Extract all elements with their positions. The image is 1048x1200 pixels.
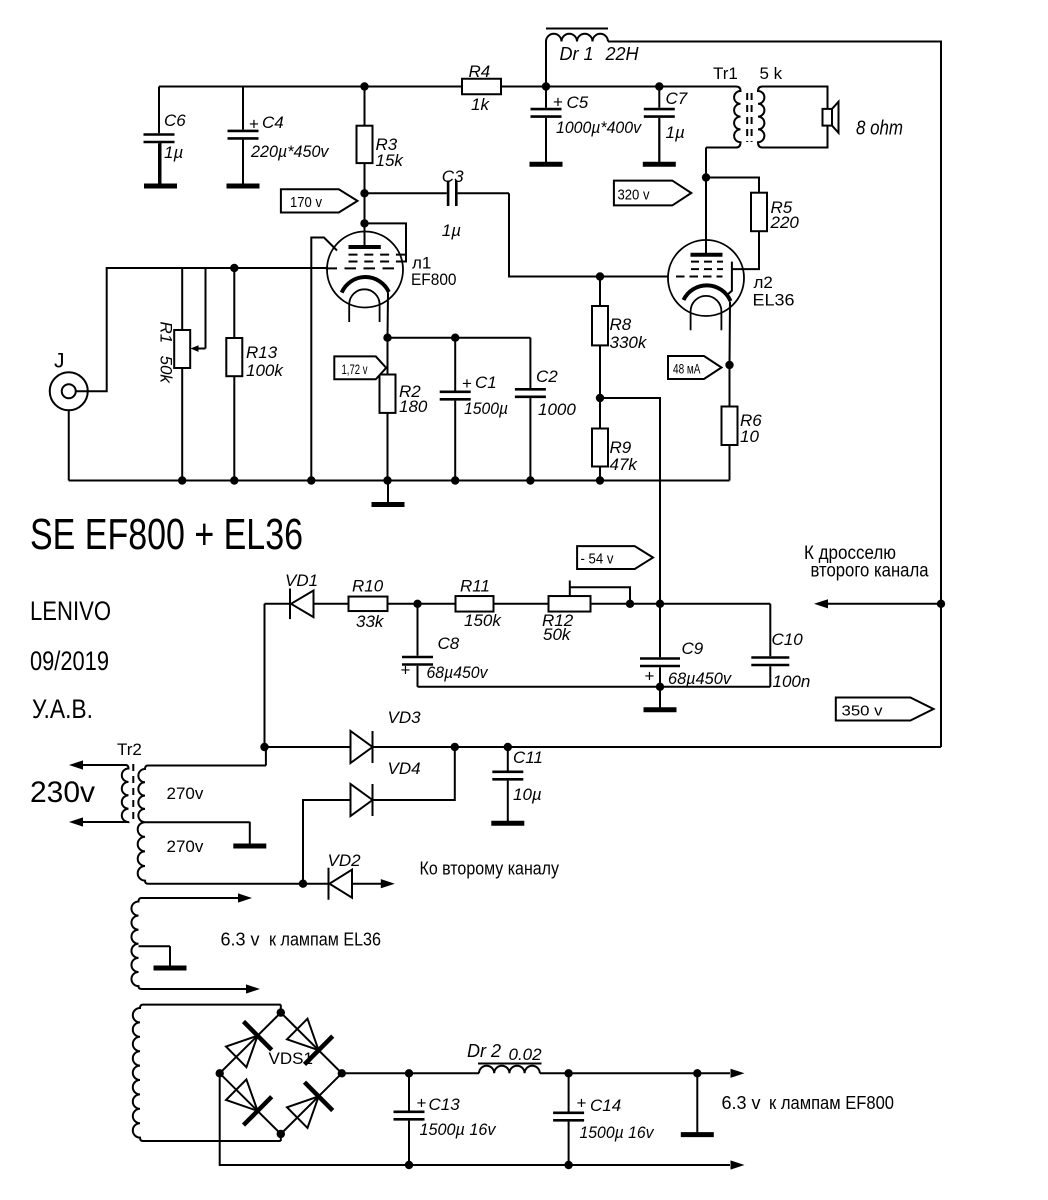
- tube L1 screen bracket: [365, 223, 407, 261]
- tube L2 EL36 envelope: [668, 240, 744, 316]
- choke Dr1: [546, 29, 608, 87]
- arrow heater EL36 b: [246, 984, 260, 993]
- resistor R8: [592, 306, 608, 345]
- svg-text:220: 220: [770, 213, 800, 232]
- wire (HV centre tap): [145, 821, 250, 823]
- node anode EL36 / R5: [702, 173, 710, 181]
- potentiometer R12 wiper: [570, 581, 630, 604]
- wire: [599, 277, 601, 307]
- wire: [364, 163, 366, 245]
- node HV bottom: [299, 880, 307, 888]
- svg-text:100n: 100n: [773, 672, 811, 691]
- svg-text:SE EF800 + EL36: SE EF800 + EL36: [30, 510, 303, 559]
- tube L1 heater: [349, 289, 379, 322]
- node VD4 join: [451, 743, 459, 751]
- wire: [387, 338, 389, 375]
- resistor R11: [456, 596, 494, 612]
- node screen tap L1: [360, 219, 368, 227]
- node C9 ground: [656, 683, 664, 691]
- wire (DC plus rail): [342, 1072, 479, 1074]
- transformer Tr1 primary: [706, 87, 741, 148]
- svg-text:50k: 50k: [157, 356, 176, 385]
- svg-text:220µ*450v: 220µ*450v: [250, 142, 330, 161]
- svg-text:0.02: 0.02: [509, 1045, 543, 1064]
- speaker 8 ohm: [823, 102, 839, 133]
- svg-text:100k: 100k: [246, 361, 284, 380]
- junction: [451, 334, 459, 342]
- svg-text:Tr1: Tr1: [713, 64, 738, 83]
- capacitor C14: [553, 1073, 584, 1165]
- flag 48 mA: [668, 356, 722, 379]
- transformer Tr2 heater winding 6.3v EL36: [131, 898, 246, 989]
- svg-text:R10: R10: [352, 577, 384, 596]
- svg-text:10: 10: [740, 427, 759, 446]
- wire (HV top to rectifier): [265, 747, 267, 766]
- svg-text:180: 180: [399, 397, 428, 416]
- node C13 plus: [405, 1069, 413, 1077]
- svg-text:VD3: VD3: [388, 708, 422, 727]
- svg-text:68µ450v: 68µ450v: [668, 669, 732, 688]
- arrow to second channel: [381, 879, 395, 888]
- svg-text:л2: л2: [754, 273, 773, 292]
- wire: [303, 883, 329, 885]
- node cathode L2: [725, 361, 733, 369]
- wire: [732, 231, 759, 269]
- node -54v: [656, 600, 664, 608]
- transformer Tr1 core: [747, 93, 751, 142]
- ground (C7): [643, 118, 676, 164]
- wire: [76, 268, 327, 391]
- junction: [230, 476, 238, 484]
- svg-text:C1: C1: [475, 373, 497, 392]
- ground (C4): [227, 140, 260, 186]
- svg-text:Dr 2: Dr 2: [467, 1041, 501, 1061]
- wire: [181, 268, 183, 330]
- svg-text:15k: 15k: [376, 151, 405, 170]
- junction: [526, 476, 534, 484]
- wire: [706, 178, 759, 193]
- node bridge AC bottom: [277, 1130, 285, 1138]
- wire: [233, 268, 235, 338]
- svg-text:C5: C5: [567, 93, 589, 112]
- svg-text:EL36: EL36: [753, 291, 795, 310]
- wire: [599, 345, 601, 398]
- ground (C9): [644, 687, 677, 710]
- wire (B+ rail): [265, 746, 942, 748]
- resistor R12: [549, 596, 591, 612]
- svg-text:R8: R8: [610, 315, 632, 334]
- svg-text:270v: 270v: [167, 837, 204, 856]
- ground (heater EL36): [154, 946, 187, 968]
- capacitor C3: [365, 181, 510, 207]
- wire: [600, 398, 660, 604]
- svg-text:Ко второму каналу: Ко второму каналу: [420, 859, 560, 879]
- rectifier bridge VDS1 frame: [220, 1013, 342, 1134]
- svg-text:LENIVO: LENIVO: [30, 596, 111, 626]
- arrow mains L: [69, 760, 83, 769]
- wire: [540, 1072, 730, 1074]
- svg-text:6.3 v: 6.3 v: [221, 930, 260, 950]
- ground bus wire: [69, 480, 730, 482]
- wire: [591, 603, 771, 605]
- arrow to choke of second channel: [814, 599, 828, 608]
- svg-text:+: +: [645, 667, 655, 686]
- arrow heater EL36 a: [238, 893, 252, 902]
- tube L1 suppressor lead: [311, 238, 337, 481]
- wire: [352, 883, 381, 885]
- wire: [388, 603, 456, 605]
- svg-text:150k: 150k: [464, 611, 502, 630]
- tube L1 grid g3 dashes: [349, 254, 398, 256]
- capacitor C9: [640, 604, 680, 687]
- ground (C6): [144, 143, 177, 186]
- svg-text:R4: R4: [469, 62, 491, 81]
- node heater EF800 out: [693, 1069, 701, 1077]
- wire (DC minus rail): [220, 1073, 730, 1165]
- svg-text:C13: C13: [429, 1095, 461, 1114]
- svg-text:350 v: 350 v: [842, 703, 884, 720]
- ground (C11): [491, 781, 524, 824]
- svg-text:270v: 270v: [167, 784, 204, 803]
- ground (heater EF800): [681, 1073, 714, 1134]
- svg-text:второго канала: второго канала: [811, 561, 929, 582]
- flag 1,72 v: [334, 356, 386, 379]
- tube L2 anode: [691, 254, 723, 256]
- svg-text:47k: 47k: [610, 455, 639, 474]
- svg-text:1µ: 1µ: [666, 123, 685, 142]
- svg-text:J: J: [54, 350, 65, 373]
- wire (heater tap): [139, 945, 171, 947]
- wire: [388, 337, 531, 339]
- svg-text:C8: C8: [438, 634, 460, 653]
- transformer Tr1 secondary: [758, 87, 764, 148]
- svg-text:R13: R13: [246, 343, 278, 362]
- capacitor C2: [515, 338, 546, 481]
- svg-text:1000: 1000: [538, 400, 576, 419]
- svg-text:1500µ: 1500µ: [464, 399, 508, 418]
- wire: [705, 148, 707, 255]
- flag -54 v: [577, 546, 653, 569]
- svg-text:C6: C6: [164, 111, 186, 130]
- node R8/R9: [596, 394, 604, 402]
- capacitor C8: [402, 604, 433, 687]
- node C11: [504, 743, 512, 751]
- resistor R1: [174, 330, 190, 368]
- connector J: [50, 372, 88, 410]
- svg-text:Dr 1: Dr 1: [560, 44, 594, 64]
- svg-text:к лампам EL36: к лампам EL36: [269, 930, 381, 950]
- svg-text:Tr2: Tr2: [117, 740, 142, 759]
- svg-text:10µ: 10µ: [513, 785, 542, 804]
- tube L1 cathode lead: [387, 292, 390, 337]
- wire: [494, 603, 549, 605]
- bridge diode upper-left: [226, 1022, 272, 1068]
- junction: [178, 476, 186, 484]
- svg-text:6.3 v: 6.3 v: [722, 1093, 761, 1113]
- ground (bus): [372, 483, 405, 505]
- tube L1 anode: [349, 245, 381, 249]
- tube L2 cathode lead: [729, 302, 732, 407]
- resistor R3: [357, 126, 373, 163]
- svg-text:VD1: VD1: [285, 571, 318, 590]
- diode VD1: [290, 589, 314, 620]
- svg-text:320 v: 320 v: [618, 187, 650, 204]
- wire: [265, 603, 291, 605]
- capacitor C5: [531, 87, 562, 162]
- wire: [501, 86, 736, 88]
- flag 350 v: [836, 698, 934, 721]
- svg-text:5 k: 5 k: [760, 64, 783, 83]
- svg-text:+: +: [577, 1094, 587, 1113]
- flag 170 v: [281, 189, 358, 212]
- wire: [599, 398, 601, 429]
- node C7 junction: [655, 82, 663, 90]
- svg-text:C10: C10: [772, 630, 804, 649]
- transformer Tr2 primary: [83, 765, 129, 822]
- tube L1 grid g1 dashes: [326, 267, 397, 269]
- svg-text:33k: 33k: [356, 612, 385, 631]
- choke Dr2: [478, 1064, 542, 1074]
- resistor R10: [349, 597, 388, 612]
- svg-text:VD4: VD4: [388, 759, 421, 778]
- node bridge plus: [338, 1069, 346, 1077]
- svg-text:1000µ*400v: 1000µ*400v: [556, 118, 642, 137]
- node R12 wiper: [626, 600, 634, 608]
- svg-text:C3: C3: [442, 167, 464, 186]
- wire: [181, 368, 183, 481]
- svg-text:+: +: [553, 93, 563, 112]
- bridge diode upper-right: [287, 1019, 333, 1065]
- ground (Tr2 centre tap): [233, 822, 266, 846]
- tube L2 grid g1 dashes: [676, 276, 723, 278]
- bridge diode lower-left: [226, 1079, 272, 1125]
- svg-text:C14: C14: [590, 1096, 621, 1115]
- svg-text:48 мА: 48 мА: [673, 361, 701, 377]
- resistor R5: [751, 193, 767, 232]
- node grid L2: [596, 272, 604, 280]
- arrow mains N: [69, 817, 83, 826]
- svg-text:68µ450v: 68µ450v: [427, 663, 489, 682]
- wire: [68, 410, 70, 481]
- svg-text:R1: R1: [157, 322, 176, 344]
- potentiometer R1 wiper: [191, 268, 206, 352]
- transformer Tr2 core: [132, 764, 134, 824]
- tube L2 grid g3 dashes: [691, 268, 723, 270]
- wire: [729, 445, 731, 481]
- junction: [307, 476, 315, 484]
- svg-text:+: +: [417, 1094, 427, 1113]
- node bridge AC top: [277, 1008, 285, 1016]
- capacitor C4: [228, 87, 259, 185]
- tube L2 heater: [691, 296, 722, 330]
- svg-text:22H: 22H: [605, 44, 640, 64]
- capacitor C7: [644, 87, 675, 162]
- svg-text:8 ohm: 8 ohm: [856, 118, 903, 140]
- node C13 minus: [405, 1161, 413, 1169]
- resistor R4: [462, 79, 501, 95]
- junction: [596, 476, 604, 484]
- svg-text:VDS1: VDS1: [269, 1049, 313, 1068]
- capacitor C6: [144, 87, 175, 185]
- svg-text:C7: C7: [666, 89, 688, 108]
- wire: [159, 86, 462, 88]
- wire: [608, 42, 941, 748]
- svg-text:1500µ 16v: 1500µ 16v: [580, 1123, 655, 1142]
- svg-text:1k: 1k: [471, 95, 490, 114]
- arrow 6.3v EF800 b: [731, 1160, 745, 1169]
- tube L2 cathode: [684, 285, 731, 301]
- node Tr2 HV top: [260, 743, 268, 751]
- node 350v rail: [937, 600, 945, 608]
- transformer Tr2 secondary HV: [138, 766, 303, 884]
- bridge diode lower-right: [287, 1082, 333, 1128]
- resistor R6: [722, 407, 738, 446]
- svg-text:к лампам EF800: к лампам EF800: [769, 1093, 894, 1113]
- svg-text:330k: 330k: [610, 333, 648, 352]
- wire (bias filter bottom): [418, 686, 771, 688]
- transformer Tr2 heater winding 6.3v EF800: [133, 1005, 281, 1141]
- svg-text:230v: 230v: [30, 776, 95, 809]
- diode VD3: [351, 731, 373, 763]
- svg-text:У.А.В.: У.А.В.: [32, 694, 93, 724]
- resistor R13: [226, 338, 242, 376]
- wire (to second channel choke): [828, 603, 941, 605]
- svg-text:1µ: 1µ: [442, 221, 461, 240]
- capacitor C11: [492, 747, 523, 779]
- diode VD4: [351, 784, 373, 816]
- arrow 6.3v EF800 a: [731, 1069, 745, 1078]
- svg-text:+: +: [249, 115, 259, 134]
- svg-text:50k: 50k: [543, 625, 572, 644]
- wire (VD4 branch): [303, 747, 455, 884]
- junction: [451, 476, 459, 484]
- wire (VD1 rail): [264, 604, 266, 747]
- resistor R2: [380, 375, 396, 413]
- svg-text:C2: C2: [536, 367, 558, 386]
- wire: [387, 413, 389, 481]
- node C14 minus: [564, 1161, 572, 1169]
- node bridge minus: [216, 1069, 224, 1077]
- wire: [763, 87, 828, 148]
- wire (to bridge top): [280, 1005, 282, 1013]
- svg-text:09/2019: 09/2019: [30, 646, 109, 676]
- flag 320 v: [614, 181, 691, 206]
- tube L1 grid g2 dashes: [349, 261, 398, 263]
- svg-text:EF800: EF800: [411, 270, 457, 289]
- tube L1 EF800 envelope: [327, 232, 403, 308]
- tube L2 grid g2 dashes: [691, 261, 723, 263]
- svg-text:C11: C11: [513, 748, 543, 767]
- junction: [383, 476, 391, 484]
- ground (C5): [530, 118, 563, 164]
- svg-text:1,72 v: 1,72 v: [342, 361, 368, 377]
- diode VD2: [329, 868, 353, 900]
- wire: [509, 193, 668, 276]
- wire: [233, 376, 235, 480]
- wire: [314, 603, 349, 605]
- wire: [599, 467, 601, 481]
- resistor R9: [592, 429, 608, 467]
- node C8: [413, 600, 421, 608]
- svg-text:C9: C9: [682, 639, 704, 658]
- capacitor C10: [751, 604, 789, 687]
- node grid L1: [230, 264, 238, 272]
- capacitor C13: [394, 1073, 425, 1165]
- svg-text:170 v: 170 v: [290, 194, 322, 211]
- svg-text:R11: R11: [460, 577, 490, 596]
- svg-text:+: +: [401, 661, 411, 680]
- wire (to bridge bottom): [280, 1134, 282, 1141]
- svg-text:1500µ 16v: 1500µ 16v: [420, 1120, 497, 1139]
- capacitor C1: [440, 338, 471, 481]
- tube L2 beam plate: [727, 262, 732, 295]
- svg-text:- 54 v: - 54 v: [581, 551, 614, 568]
- svg-text:C4: C4: [262, 113, 284, 132]
- svg-text:1µ: 1µ: [164, 143, 183, 162]
- svg-text:VD2: VD2: [328, 851, 362, 870]
- wire: [364, 87, 366, 126]
- node C14 plus: [564, 1069, 572, 1077]
- node B+ / C5 junction: [542, 82, 550, 90]
- R3 junction node: [360, 82, 368, 90]
- tube L1 cathode: [342, 277, 389, 293]
- node 170v / C3 tap: [360, 189, 368, 197]
- svg-text:+: +: [462, 374, 472, 393]
- node cathode L1: [383, 334, 391, 342]
